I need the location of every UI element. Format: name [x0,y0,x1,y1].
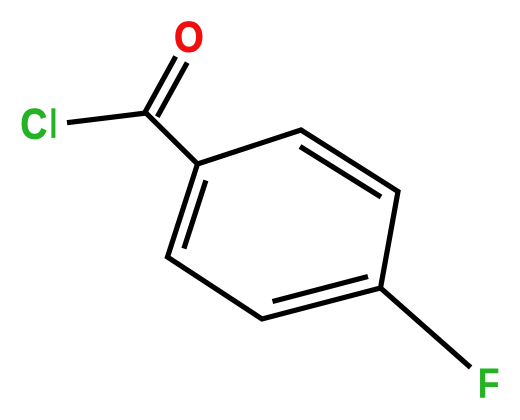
ring double bond inner line V4-V5 [273,277,369,302]
wire C-ring bond [146,113,198,164]
wire C-F bond [381,288,471,368]
svg-text:F: F [478,360,500,408]
wire C=O double bond line 1 [145,57,176,113]
atom Cl label letter l [51,108,55,138]
benzene ring outline [168,130,399,319]
wire Cl-C bond [67,113,146,123]
ring double bond inner line V2-V3 [300,147,381,198]
svg-text:O: O [174,14,204,62]
ring double bond inner line V6-V1 [184,180,206,248]
svg-text:C: C [20,101,47,149]
wire C=O double bond line 2 [157,63,187,117]
